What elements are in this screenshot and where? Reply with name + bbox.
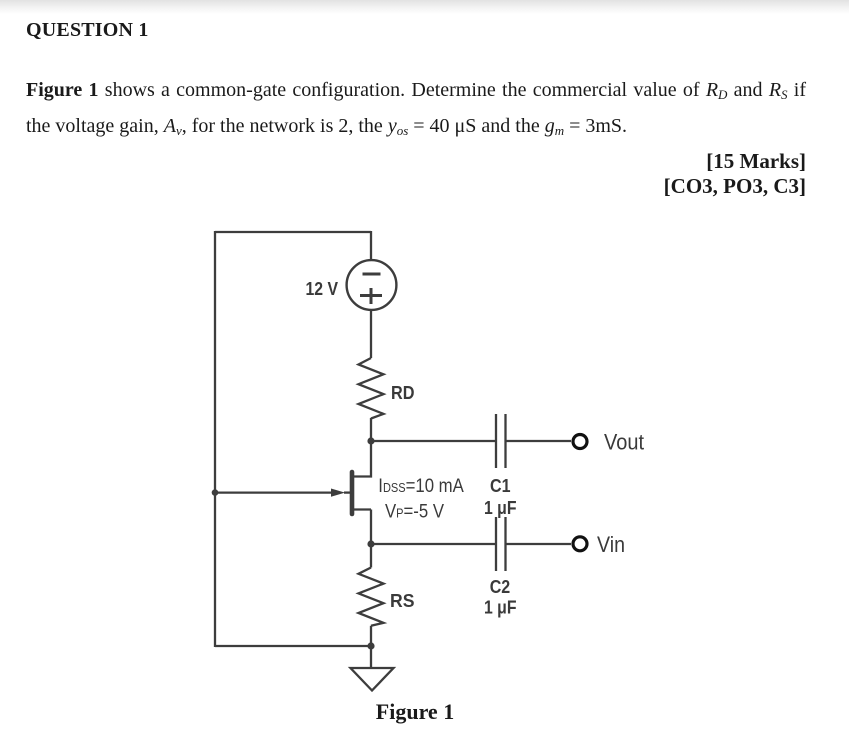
svg-text:Vin: Vin	[597, 532, 625, 557]
wire: gate lead	[215, 491, 332, 493]
svg-text:RS: RS	[390, 591, 415, 611]
wire: left vertical rail	[214, 231, 216, 647]
svg-text:12 V: 12 V	[306, 279, 339, 299]
wire: battery top lead	[370, 231, 372, 260]
wire: source node to RS	[370, 544, 372, 568]
node: gate tap on left rail	[212, 489, 219, 496]
wire: bottom node to ground	[370, 646, 372, 667]
wire: C1 to Vout terminal	[506, 440, 571, 442]
svg-text:1 μF: 1 μF	[484, 598, 517, 618]
svg-text:VP=-5 V: VP=-5 V	[385, 502, 444, 523]
svg-text:1 μF: 1 μF	[484, 498, 517, 518]
svg-text:C1: C1	[490, 476, 511, 496]
wire: C2 to Vin terminal	[506, 543, 571, 545]
svg-text:RD: RD	[391, 383, 415, 403]
node: source junction	[367, 540, 374, 547]
node: drain junction	[367, 437, 374, 444]
node: bottom junction	[367, 642, 374, 649]
wire: JFET source to source node	[370, 510, 372, 545]
wire: bottom horizontal rail	[215, 645, 371, 647]
svg-text:IDSS=10 mA: IDSS=10 mA	[378, 476, 464, 497]
wire: battery to RD	[370, 310, 372, 358]
resistor RD	[359, 358, 415, 419]
ground	[351, 668, 394, 691]
wire: drain node to C1	[371, 440, 495, 442]
voltage source 12 V	[306, 260, 397, 310]
capacitor C1	[484, 414, 517, 518]
wire: RS to bottom node	[370, 626, 372, 646]
svg-text:Vout: Vout	[604, 430, 644, 455]
wire: drain node to JFET drain	[354, 441, 371, 477]
capacitor C2	[484, 517, 517, 618]
transistor Q1 (JFET)	[331, 472, 464, 523]
svg-text:C2: C2	[490, 577, 511, 597]
wire: RD to drain node	[370, 418, 372, 441]
wire: top horizontal rail	[215, 231, 371, 233]
resistor RS	[359, 568, 415, 626]
terminal Vout	[573, 430, 644, 455]
terminal Vin	[573, 532, 625, 557]
wire: source node to C2	[371, 543, 495, 545]
